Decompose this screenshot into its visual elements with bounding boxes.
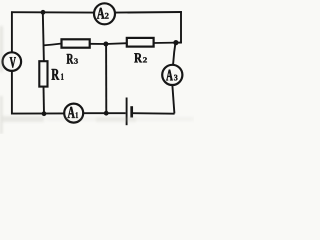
wire bottom segment B: [83, 112, 126, 114]
label R1: [52, 69, 60, 80]
label A3: [166, 70, 173, 81]
wire R2 to right node: [153, 42, 176, 44]
wire top-right segment: [115, 11, 182, 14]
label R2: [134, 53, 142, 62]
node dot between R3 and R2: [103, 42, 108, 47]
wire middle branch vertical: [105, 44, 107, 114]
node dot top of R1 branch: [41, 10, 46, 15]
wire R3 to node: [89, 43, 106, 45]
resistor R3 box: [62, 39, 90, 47]
wire A3 bottom to corner: [172, 86, 174, 114]
wire node to A3 top: [173, 44, 175, 64]
label V: [10, 57, 16, 67]
wire bottom segment A: [11, 112, 65, 114]
wire left border upper: [11, 11, 13, 52]
wire branch R1 lower: [43, 86, 46, 114]
battery long plate: [126, 98, 128, 126]
wire node to R2: [106, 42, 127, 45]
node dot right of R2: [173, 40, 178, 45]
battery short plate: [130, 106, 133, 117]
node dot bottom of middle branch: [104, 111, 109, 116]
ammeter A3 circle: [162, 65, 182, 85]
label A2: [97, 8, 105, 19]
label R3: [67, 54, 74, 64]
wire bottom segment C: [133, 112, 175, 115]
wire branch R1 upper: [43, 12, 44, 62]
label A1: [68, 107, 75, 118]
resistor R2 box: [127, 38, 154, 47]
ammeter A2 circle: [94, 3, 115, 24]
wire left border lower: [11, 71, 13, 115]
wire R3 branch left: [43, 44, 62, 46]
resistor R1 box: [39, 61, 47, 86]
ammeter A1 circle: [64, 104, 83, 123]
voltmeter V circle: [3, 52, 22, 71]
wire stub node to right border: [176, 42, 182, 44]
node dot bottom of R1 branch: [42, 111, 47, 116]
wire right border: [180, 11, 182, 43]
wire top-left segment: [11, 11, 94, 13]
